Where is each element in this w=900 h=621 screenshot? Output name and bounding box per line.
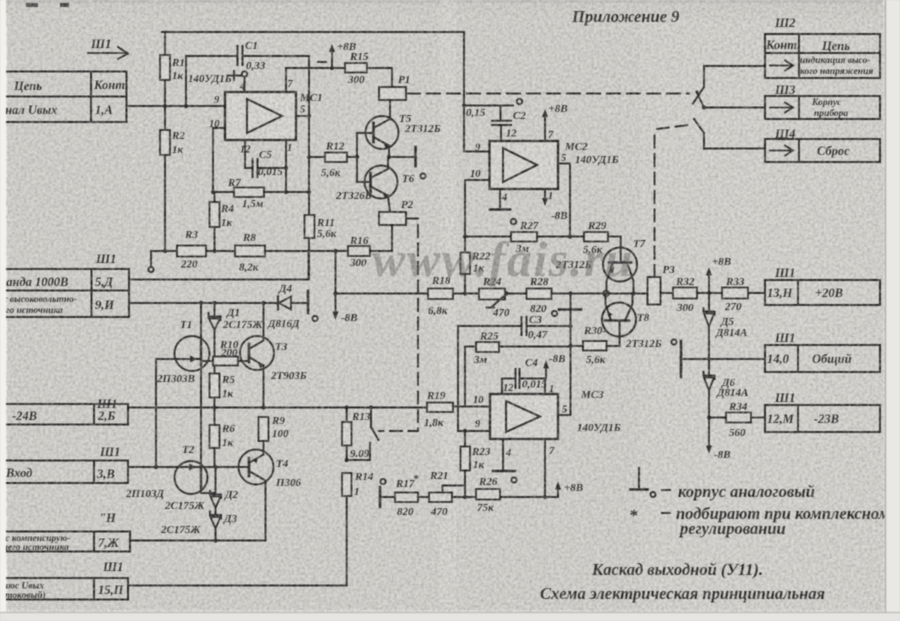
wire: T5/T6 base vertical — [356, 133, 358, 182]
power +8В arrow (near MC3) — [555, 481, 583, 497]
paper specks top left — [26, 3, 69, 7]
pin 12 MC1 and capacitor C5 0,015 — [240, 140, 286, 178]
legend: asterisk note — [629, 504, 890, 538]
connector table Ш1: 14,0 Общий — [765, 331, 880, 372]
wire: 1,А to MC1 pin 9 — [127, 105, 226, 107]
terminal bar and test point at R17 — [380, 479, 395, 507]
pin 12 MC3 and capacitor C4 0,015 — [502, 357, 547, 394]
connector table Ш1: минус компенсирующего источника 7,Ж — [0, 511, 130, 553]
resistor R7 1,5М — [213, 177, 311, 210]
legend: chassis symbol корпус аналоговый — [631, 468, 815, 501]
zener Д1 2С175Ж — [209, 303, 264, 361]
chassis bar (корпус) near T5 — [414, 147, 417, 166]
wire: output feedback vertical x=309 — [308, 56, 310, 215]
pin 5 MC2 output — [558, 153, 572, 239]
resistor R3 220 — [177, 229, 206, 271]
pin 7 MC1 — [286, 68, 345, 92]
diode Д4 Д816Д — [267, 283, 306, 330]
resistor R18 6,8к — [428, 275, 453, 317]
connector table Ш1: Цепь/Конт, сигнал Uвых 1,А — [0, 72, 128, 123]
zener Д3 2С175Ж — [160, 512, 238, 541]
pin 1 MC2 with -8В arrow — [542, 189, 568, 222]
resistor R6 1к — [210, 408, 236, 468]
transistor T8 2Т312Б — [602, 294, 662, 351]
transistor T7 2Т312Б — [555, 237, 646, 294]
dashed link from P3 up to Ш4 switch — [654, 129, 656, 277]
zener Д5 Д814А — [704, 293, 748, 359]
resistor R29 5,6к — [583, 220, 608, 256]
resistor R21 470 (adjustable) — [429, 470, 476, 518]
resistor R25 3М (feedback) — [465, 331, 571, 407]
resistor R32 300 — [673, 276, 722, 314]
wire: 7,Ж rail — [130, 540, 266, 542]
pin 9 MC3 — [458, 419, 490, 433]
pin 10 MC2 — [463, 169, 490, 239]
relay coil P2 — [379, 199, 414, 251]
resistor R16 300 — [348, 235, 392, 269]
main rail y=293.5 — [336, 293, 648, 295]
resistor R24 (adjustable) — [479, 276, 510, 319]
pin 1 MC1 — [284, 140, 292, 194]
resistor R2 — [160, 106, 185, 251]
connector Ш4 table — [765, 127, 880, 162]
connector Ш2 table with switch — [765, 16, 880, 78]
wire: bottom rail y=251 — [151, 250, 392, 252]
relay coil P3 — [648, 264, 676, 305]
node on Общий rail — [707, 357, 711, 361]
wire: 15,П rail up through R14 — [128, 496, 347, 586]
resistor R33 270 — [722, 276, 765, 313]
wire: pin 10 MC1 down branch — [211, 128, 225, 194]
connector Ш1 label with arrow (top left) — [88, 37, 128, 59]
pin 4 MC1 test point circle — [239, 71, 247, 92]
resistor R9 100 — [259, 415, 290, 452]
terminal: open circle left of R3 — [148, 251, 153, 272]
pin 7 MC3 — [543, 439, 555, 499]
resistor R11 5,6к — [305, 215, 337, 280]
transistor T4 П306 — [239, 450, 302, 541]
connector table Ш1: 13,Н +20В — [765, 266, 880, 305]
op-amp U=MC2 140УД1Б — [490, 141, 619, 189]
chassis bar terminal on Общий rail — [671, 339, 765, 377]
resistor R17* 820 — [395, 473, 429, 518]
wire and switch to Ш3 — [695, 90, 765, 109]
capacitor C3 0,47 — [458, 314, 571, 431]
connector table Ш1: плюс Uвых (токовый) 15,П — [0, 560, 128, 601]
pin 5 MC3 output — [558, 405, 571, 416]
test point circle at R27 — [511, 219, 516, 224]
wire and switch to Ш2 — [693, 66, 765, 104]
transistor T6 2Т326Б — [335, 157, 426, 212]
resistor R34 560 — [709, 401, 765, 439]
resistor R30 5,6к — [571, 325, 607, 366]
wire to chassis bar — [389, 156, 413, 158]
power +8В arrow (right) — [706, 256, 731, 293]
resistor R5 1к — [210, 366, 236, 408]
pin 4 MC2 to chassis — [490, 189, 510, 210]
resistor R4 1к — [210, 192, 235, 251]
connector table Ш1: команда 1000В 5,Д / минус высоковольтного источника 9,И — [0, 252, 129, 317]
switch contact (shorts R13) — [349, 408, 379, 461]
resistor R23 1к — [461, 431, 491, 499]
chassis stub between R28 and T8 — [552, 294, 581, 317]
resistor R8 8,2к — [235, 232, 265, 274]
wire: 5,Д command rail — [129, 251, 309, 280]
node: T5/T6 emitter junction — [387, 155, 391, 159]
wire: MC3 output vertical x=570.5 — [570, 294, 572, 416]
power +8В arrow (top) — [318, 41, 356, 70]
connector Ш3 table — [765, 83, 880, 119]
pin 7 MC2 with +8В arrow — [542, 103, 568, 141]
node: C1 branch junction — [184, 104, 188, 108]
wire: 9,И rail — [129, 302, 278, 304]
wire: top rail y=32 — [162, 32, 490, 152]
resistor R10 200 — [201, 339, 249, 366]
relay coil P1 — [379, 68, 410, 120]
resistor R26 75к — [476, 476, 558, 514]
capacitor C2 0,15 with test point — [462, 99, 526, 141]
node on R34 rail — [707, 415, 711, 419]
op-amp U=MC3 140УД1Б — [490, 389, 621, 439]
power -8В arrow (bottom right) — [706, 418, 731, 462]
power -8В arrow (left middle) — [333, 251, 358, 324]
wire: R6 to Д2 chain — [215, 467, 217, 494]
connector table Ш1: 12,М -23В — [765, 391, 880, 432]
wire: T1 gate to Вход rail — [155, 359, 157, 467]
transistor T5 2Т312Б — [357, 113, 441, 157]
resistor R14 1 — [342, 471, 374, 498]
connector table Ш1: Вход 3,В — [0, 445, 128, 483]
zener Д6 Д814А — [704, 359, 749, 418]
capacitor C1 0,33 — [186, 40, 309, 106]
node: R1/R2 junction — [163, 104, 167, 108]
pin 4 MC3 to chassis — [493, 439, 515, 471]
transistor T2 2П103Д (FET) — [125, 444, 216, 500]
resistor R22 1к — [461, 237, 491, 296]
wire and switch to Ш4 — [657, 119, 765, 149]
resistor R19 1,8к — [424, 390, 490, 429]
resistor R15 300 — [345, 51, 392, 86]
transistor T1 2П303В (FET) — [156, 303, 210, 467]
op-amp U=MC1 140УД1Б — [188, 71, 323, 140]
zener Д2 2С175Ж — [164, 489, 239, 515]
connector table Ш1: -24В 2,Б — [0, 397, 128, 425]
resistor R27 3М — [465, 220, 584, 255]
pin 1 MC3 with -8В arrow — [543, 353, 566, 395]
dashed link from P1 to Ш2 switch — [407, 93, 689, 95]
resistor R12 5,6к — [307, 141, 357, 180]
wire: Вход rail to T4 base — [128, 466, 249, 468]
transistor T3 2Т903Б — [240, 303, 307, 408]
resistor R1 — [160, 32, 185, 106]
chassis bar at Д4 — [308, 291, 318, 321]
dashed link from P2 down to R13 switch — [379, 219, 418, 432]
pin 5 MC1 output — [296, 105, 311, 119]
wire: -24В rail — [128, 407, 427, 409]
resistor R13 9.09 — [342, 408, 371, 463]
resistor R28 820 — [527, 276, 552, 315]
